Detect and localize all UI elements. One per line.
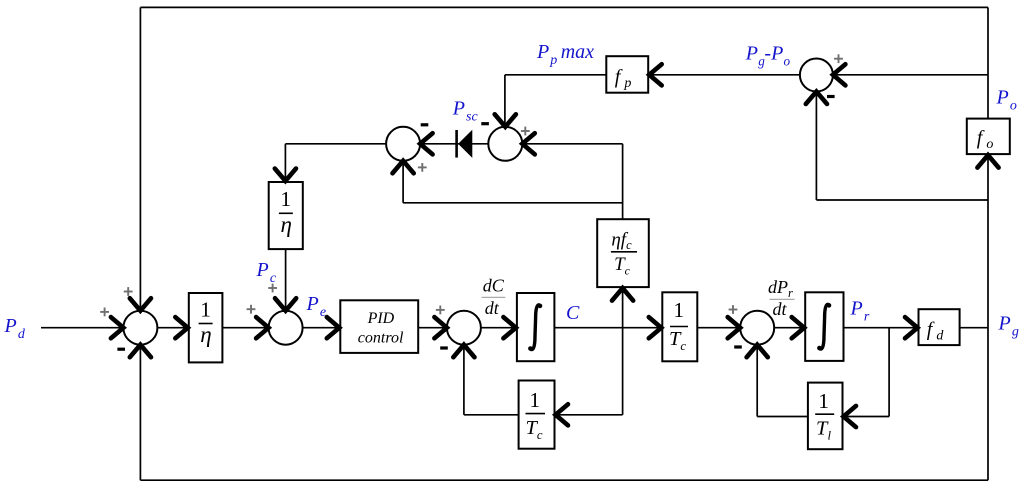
svg-text:1: 1 [818,389,829,413]
svg-text:η: η [200,322,211,347]
svg-text:control: control [358,329,404,346]
svg-text:dC: dC [483,275,505,295]
svg-text:1: 1 [280,187,291,211]
svg-text:PID: PID [367,310,395,327]
svg-text:η: η [280,212,291,237]
svg-text:dt: dt [772,299,787,319]
svg-text:1: 1 [673,298,684,322]
svg-text:1: 1 [529,388,540,412]
svg-text:dt: dt [485,298,500,318]
svg-text:1: 1 [200,297,211,321]
svg-text:C: C [566,302,580,324]
